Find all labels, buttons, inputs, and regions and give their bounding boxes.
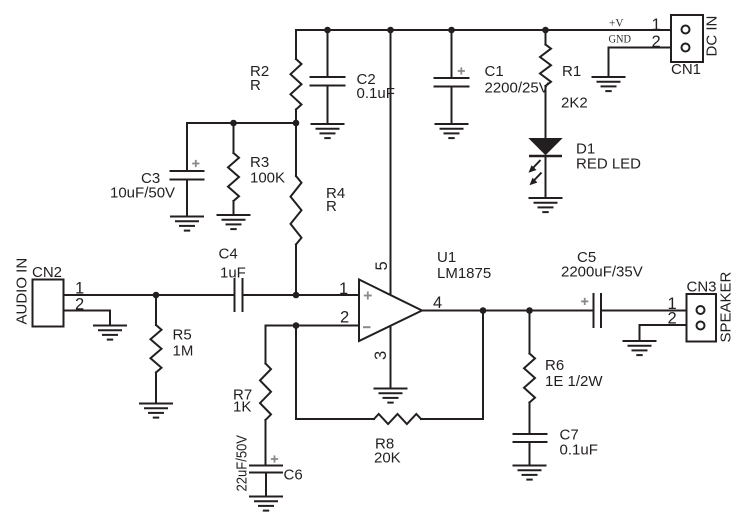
svg-text:2: 2 bbox=[75, 296, 84, 314]
ground R3 bbox=[218, 214, 250, 216]
svg-text:C4: C4 bbox=[219, 246, 238, 263]
svg-text:C6: C6 bbox=[284, 467, 303, 484]
svg-text:0.1uF: 0.1uF bbox=[357, 85, 395, 102]
ground R5 bbox=[140, 403, 172, 405]
capacitor C1 bbox=[435, 78, 469, 87]
svg-text:LM1875: LM1875 bbox=[437, 265, 491, 282]
wire R2 bottom lead bbox=[295, 110, 297, 124]
wire C1 leads bbox=[451, 30, 453, 78]
svg-text:1uF: 1uF bbox=[220, 265, 246, 282]
capacitor C7 bbox=[514, 434, 547, 442]
svg-text:RED LED: RED LED bbox=[576, 156, 641, 173]
wire C5 to CN3 pin 1 bbox=[602, 310, 687, 312]
ground CN2 bbox=[94, 325, 126, 327]
resistor R2 bbox=[291, 59, 302, 110]
capacitor C2 bbox=[311, 77, 345, 86]
svg-text:CN1: CN1 bbox=[671, 61, 701, 78]
wire R3 leads bbox=[233, 123, 235, 153]
ground op-amp pin 3 bbox=[375, 388, 407, 390]
resistor R3 bbox=[228, 153, 239, 201]
svg-text:22uF/50V: 22uF/50V bbox=[234, 435, 251, 492]
wire R5 leads bbox=[155, 295, 157, 325]
svg-text:C1: C1 bbox=[485, 63, 504, 80]
svg-text:20K: 20K bbox=[374, 450, 401, 467]
svg-text:1M: 1M bbox=[173, 343, 194, 360]
node feedback output junction bbox=[480, 307, 487, 314]
wire D1 cathode lead bbox=[545, 156, 547, 198]
connector CN3 SPEAKER bbox=[687, 294, 717, 342]
wire CN2 pin 1 to C4 bbox=[64, 294, 234, 296]
svg-text:3: 3 bbox=[372, 351, 390, 360]
capacitor C6 bbox=[250, 466, 282, 473]
wire CN2 pin 2 to ground bbox=[64, 311, 111, 326]
wire R2 top lead bbox=[295, 30, 297, 59]
resistor R6 bbox=[524, 354, 535, 403]
resistor R8 bbox=[374, 414, 421, 424]
wire R7 leads bbox=[265, 326, 267, 364]
capacitor C4 bbox=[235, 279, 243, 311]
svg-text:5: 5 bbox=[373, 261, 391, 270]
svg-text:R1: R1 bbox=[562, 63, 581, 80]
ground C1 bbox=[436, 123, 468, 125]
ground D1 bbox=[530, 197, 562, 199]
wire CN1 pin 2 to ground bbox=[609, 48, 672, 78]
capacitor C3 bbox=[171, 171, 204, 180]
wire CN3 pin 2 to ground bbox=[640, 325, 687, 341]
node R7 feedback junction bbox=[293, 322, 300, 329]
LED D1 bbox=[529, 139, 563, 186]
wire C2 leads bbox=[327, 30, 329, 76]
svg-text:R5: R5 bbox=[173, 327, 192, 344]
node R1 rail junction bbox=[542, 27, 549, 34]
op-amp U1 bbox=[359, 280, 422, 342]
svg-text:1: 1 bbox=[652, 16, 661, 34]
wire C3 bottom lead bbox=[186, 181, 188, 217]
ground C2 bbox=[312, 123, 344, 125]
resistor R4 bbox=[291, 176, 302, 245]
svg-text:+V: +V bbox=[609, 16, 624, 30]
ground C7 bbox=[514, 465, 546, 467]
wire C3 top lead bbox=[186, 123, 188, 170]
svg-text:2200/25V: 2200/25V bbox=[485, 80, 549, 97]
wire R1 leads bbox=[545, 30, 547, 45]
svg-text:4: 4 bbox=[433, 294, 442, 312]
svg-text:10uF/50V: 10uF/50V bbox=[110, 185, 175, 202]
ground CN1 bbox=[593, 76, 625, 78]
wire pin 3 to ground bbox=[390, 326, 392, 389]
svg-text:R3: R3 bbox=[250, 154, 269, 171]
svg-text:R6: R6 bbox=[545, 357, 564, 374]
wire feedback right branch bbox=[421, 311, 483, 420]
ground C3 bbox=[171, 216, 203, 218]
wire R6 leads bbox=[529, 311, 531, 354]
svg-text:2: 2 bbox=[668, 310, 677, 328]
svg-text:U1: U1 bbox=[437, 249, 456, 266]
svg-text:2: 2 bbox=[340, 309, 349, 327]
svg-text:1: 1 bbox=[339, 280, 348, 298]
wire op-amp input 2 row bbox=[266, 325, 360, 327]
svg-text:2: 2 bbox=[652, 33, 661, 51]
node C1 rail junction bbox=[448, 27, 455, 34]
node R5 input junction bbox=[153, 292, 160, 299]
node C2 rail junction bbox=[324, 27, 331, 34]
node R2-R4 bias junction bbox=[293, 120, 300, 127]
svg-text:CN2: CN2 bbox=[32, 264, 62, 281]
ground CN3 bbox=[624, 340, 656, 342]
wire C6 bottom lead bbox=[265, 474, 267, 497]
svg-text:0.1uF: 0.1uF bbox=[560, 442, 598, 459]
svg-text:CN3: CN3 bbox=[687, 279, 717, 296]
svg-text:DC IN: DC IN bbox=[704, 16, 721, 57]
resistor R1 bbox=[540, 45, 551, 87]
svg-text:GND: GND bbox=[609, 32, 632, 46]
wire +V rail bbox=[296, 29, 671, 31]
wire C4 to op-amp input 1 bbox=[244, 294, 360, 296]
svg-text:1K: 1K bbox=[233, 399, 251, 416]
wire output row to C5 bbox=[422, 310, 593, 312]
node R4-C4 input junction bbox=[293, 292, 300, 299]
svg-text:R: R bbox=[250, 77, 261, 94]
capacitor C5 bbox=[594, 294, 602, 327]
svg-text:100K: 100K bbox=[250, 170, 285, 187]
svg-text:1E 1/2W: 1E 1/2W bbox=[545, 373, 603, 390]
ground C6 bbox=[250, 496, 282, 498]
svg-text:SPEAKER: SPEAKER bbox=[718, 271, 735, 342]
wire R4 leads bbox=[295, 123, 297, 176]
svg-text:2200uF/35V: 2200uF/35V bbox=[561, 264, 643, 281]
connector CN1 DC IN bbox=[671, 15, 703, 62]
wire C7 bottom lead bbox=[529, 443, 531, 466]
svg-text:AUDIO IN: AUDIO IN bbox=[14, 258, 31, 325]
node R3 bias junction bbox=[230, 120, 237, 127]
resistor R5 bbox=[151, 325, 162, 373]
wire bias node row bbox=[187, 122, 296, 124]
svg-text:R: R bbox=[326, 198, 337, 215]
wire pin 5 supply line bbox=[390, 30, 392, 295]
node pin5 rail junction bbox=[387, 27, 394, 34]
svg-text:2K2: 2K2 bbox=[561, 95, 588, 112]
connector CN2 AUDIO IN bbox=[33, 280, 64, 327]
wire feedback left branch bbox=[296, 326, 374, 420]
node R6 output junction bbox=[526, 307, 533, 314]
resistor R7 bbox=[260, 364, 271, 421]
